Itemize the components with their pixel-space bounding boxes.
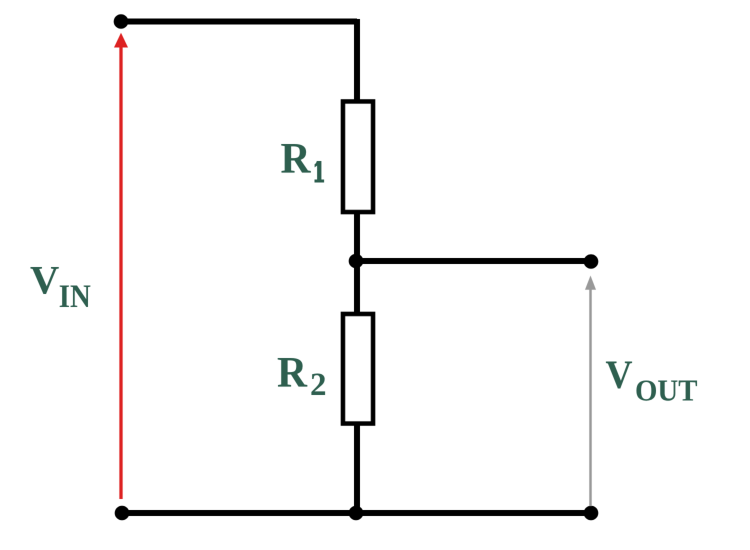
- wire R1 bottom to middle node: [354, 210, 360, 263]
- node bottom-left: [115, 506, 130, 521]
- wire bottom horizontal: [122, 510, 591, 516]
- wire top vertical to R1: [354, 19, 360, 104]
- svg-text:V: V: [606, 352, 633, 397]
- node bottom-middle junction: [349, 506, 364, 521]
- svg-text:2: 2: [310, 367, 327, 403]
- VIN arrow: [114, 33, 128, 499]
- wire middle node to R2 top: [354, 259, 360, 316]
- label VOUT: [606, 352, 698, 408]
- VOUT arrow: [585, 276, 596, 507]
- svg-text:V: V: [30, 258, 59, 303]
- label VIN: [30, 258, 91, 316]
- wire top horizontal: [121, 19, 357, 25]
- node bottom-right junction: [584, 506, 599, 521]
- resistor R1: [281, 102, 374, 213]
- node output right: [584, 254, 599, 269]
- wire middle horizontal to output node: [356, 258, 591, 264]
- svg-text:IN: IN: [59, 279, 91, 315]
- resistor R2: [277, 314, 373, 424]
- node top-left junction: [114, 14, 129, 29]
- node middle junction: [349, 254, 364, 269]
- svg-text:OUT: OUT: [635, 373, 698, 408]
- svg-text:R: R: [281, 136, 312, 183]
- wire R2 bottom to bottom node: [354, 421, 360, 513]
- svg-text:R: R: [277, 350, 308, 397]
